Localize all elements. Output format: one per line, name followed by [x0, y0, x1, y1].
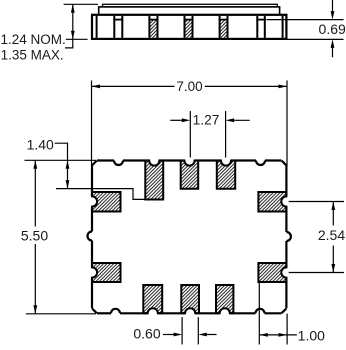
svg-text:2.54: 2.54 [318, 227, 345, 243]
side view body [92, 15, 286, 39]
outline right edge segments [285, 166, 287, 309]
dimension 7.00: extension lines [91, 81, 93, 167]
corner castellation bottom-right [282, 309, 287, 314]
dimension 1.27: extension lines [189, 111, 191, 158]
dimension 0.69: bottom extension line [287, 38, 344, 40]
dimension 1.24/1.35 height: top extension line [64, 3, 98, 5]
lid bottom flange [99, 7, 280, 15]
corner castellation top-right [282, 161, 287, 166]
dimension 0.69: upper arrow [332, 0, 334, 11]
svg-text:0.60: 0.60 [133, 326, 160, 342]
castellation cell 5 (white) [256, 16, 266, 38]
dimension 1.40: top extension line (shared with 5.50) [25, 159, 97, 161]
pad T2 [181, 161, 199, 189]
plain notch bottom-right [256, 309, 265, 314]
pad B3 (bottom) [216, 285, 233, 313]
plain notch left-middle [88, 232, 93, 241]
left end-cap line [96, 16, 98, 38]
plain notch bottom-left [111, 309, 120, 314]
dimension 7.00: dimension line [92, 85, 175, 87]
castellation cell 1 (white) [113, 16, 123, 38]
plain notch right-middle [286, 232, 290, 241]
svg-text:1.35 MAX.: 1.35 MAX. [1, 48, 64, 63]
dimension 1.40: leader [55, 143, 68, 188]
dimension 0.60: extension lines [181, 317, 183, 344]
castellation cell 3 (hatched) [184, 16, 194, 38]
dimension 1.24/1.35 height: dimension line with arrows [72, 4, 74, 39]
svg-text:5.50: 5.50 [21, 228, 48, 244]
plain notch top-right [256, 161, 265, 166]
dimension 5.50: bottom extension line [26, 313, 96, 315]
dimension 1.27: arrows [170, 119, 182, 121]
dimension 1.40: jogged bottom extension line [56, 189, 145, 200]
dimension 1.24/1.35 height: leader from 1.35 MAX. [65, 39, 73, 48]
corner castellation bottom-left [92, 309, 97, 314]
pad UR (upper-right side pad) [258, 192, 286, 212]
outline bottom edge segments [97, 312, 281, 314]
pad T1 (long top pad with notch) [145, 161, 163, 200]
svg-text:1.40: 1.40 [27, 136, 54, 152]
castellation cell 2 (hatched) [148, 16, 158, 38]
dimension 1.24/1.35 height: leader from 1.24 NOM. [66, 38, 88, 40]
plain notch top-left [114, 161, 123, 166]
dimension 2.54: dimension line [332, 202, 334, 226]
pad T3 [217, 161, 235, 189]
lid top plate [103, 4, 278, 7]
outline top edge segments [97, 159, 281, 161]
svg-text:0.69: 0.69 [319, 21, 346, 37]
pad B2 (bottom) [181, 285, 199, 313]
dimension 1.00: dimension line with inside arrows [259, 334, 297, 336]
pad LR (lower-right side pad) [258, 263, 286, 282]
pad UL (upper-left side pad) [92, 192, 121, 212]
svg-text:1.27: 1.27 [193, 113, 220, 128]
dimension 0.60: arrows [163, 334, 175, 336]
dimension 0.69: top extension line [267, 19, 344, 21]
castellation cell 4 (hatched) [219, 16, 229, 38]
right end-cap line [282, 16, 284, 38]
dimension 1.00: extension lines [258, 282, 260, 345]
dimension 2.54: extension lines [289, 201, 344, 203]
dimension 0.69: lower arrow [332, 48, 334, 58]
svg-text:1.24 NOM.: 1.24 NOM. [1, 32, 66, 47]
svg-text:7.00: 7.00 [176, 79, 202, 94]
outline left edge segments [91, 166, 93, 309]
pad LL (lower-left side pad) [92, 263, 121, 282]
pad B1 (bottom) [143, 285, 162, 313]
dimension 5.50: dimension line [34, 160, 36, 226]
svg-text:1.00: 1.00 [298, 328, 325, 344]
corner castellation top-left [92, 161, 97, 166]
